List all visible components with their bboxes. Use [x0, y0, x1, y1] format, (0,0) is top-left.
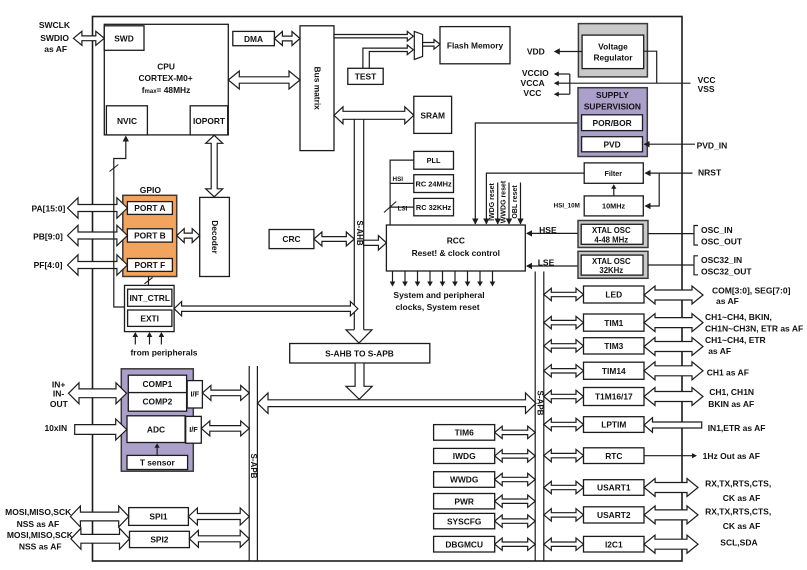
- svg-text:DBGMCU: DBGMCU: [445, 539, 483, 549]
- box PORT F: [127, 259, 172, 272]
- arrow PORT F pins: [68, 255, 128, 275]
- svg-text:EXTI: EXTI: [140, 313, 159, 323]
- wire NRST filter into RCC top: [486, 173, 584, 224]
- arrow S-APB bus to T1M16/17: [544, 390, 584, 402]
- svg-text:Bus matrix: Bus matrix: [312, 67, 322, 111]
- svg-text:10MHz: 10MHz: [602, 202, 625, 211]
- svg-text:CH1N~CH3N, ETR as AF: CH1N~CH3N, ETR as AF: [705, 323, 803, 333]
- svg-text:CH1~CH4, BKIN,: CH1~CH4, BKIN,: [705, 312, 772, 322]
- arrow WWDG to S-APB bus: [495, 473, 536, 485]
- svg-text:IN-: IN-: [53, 389, 65, 399]
- box COMP1: [128, 375, 186, 392]
- box CPU CORTEX-M0+: [104, 24, 228, 135]
- svg-text:CK as AF: CK as AF: [723, 493, 760, 503]
- box TIM3: [584, 338, 645, 354]
- MCU outer border frame: [93, 17, 683, 562]
- svg-text:IWDG: IWDG: [453, 451, 476, 461]
- wire PLL to RCC: [390, 160, 414, 225]
- bus S-AHB vertical: [353, 119, 355, 330]
- arrow CPU to Bus matrix: [228, 71, 300, 89]
- svg-text:TIM14: TIM14: [602, 366, 626, 376]
- box DBGMCU: [434, 536, 495, 552]
- svg-text:1Hz Out as AF: 1Hz Out as AF: [703, 451, 760, 461]
- wire HSI RC24MHz to vertical: [390, 182, 414, 184]
- slash mark on NVIC wire: [110, 165, 119, 172]
- box LED: [584, 286, 645, 303]
- svg-text:System and peripheral: System and peripheral: [393, 290, 484, 300]
- svg-text:Decoder: Decoder: [210, 220, 220, 254]
- svg-text:T1M16/17: T1M16/17: [595, 392, 633, 402]
- svg-text:PWR: PWR: [454, 496, 474, 506]
- wire Voltage Regulator to VCC/VSS line: [644, 51, 657, 83]
- box I2C1: [584, 536, 645, 552]
- arrow S-APB bus to TIM14: [544, 365, 584, 377]
- svg-text:COM[3:0], SEG[7:0]: COM[3:0], SEG[7:0]: [712, 285, 791, 295]
- svg-text:COMP2: COMP2: [143, 397, 173, 407]
- arrow S-APB bus to LED: [544, 288, 584, 300]
- bus S-APB right vertical: [534, 272, 536, 562]
- box RTC: [584, 448, 645, 464]
- svg-text:OUT: OUT: [50, 399, 69, 409]
- svg-text:POR/BOR: POR/BOR: [593, 118, 632, 128]
- box I/F adc interface: [186, 416, 202, 443]
- svg-text:MOSI,MISO,SCK: MOSI,MISO,SCK: [5, 507, 72, 517]
- svg-text:RCC: RCC: [447, 235, 465, 245]
- wire XTAL OSC to OSC_IN OSC_OUT bracket: [648, 233, 694, 235]
- box IOPORT: [190, 106, 228, 135]
- arrow COMP I/F to S-APB bus: [202, 385, 249, 400]
- box S-AHB TO S-APB bridge: [290, 344, 430, 364]
- svg-text:SWD: SWD: [114, 34, 134, 44]
- arrow LPTIM external input: [644, 418, 702, 433]
- svg-text:TEST: TEST: [355, 72, 377, 82]
- arrow Bus matrix to SRAM: [334, 107, 414, 124]
- svg-text:PORT A: PORT A: [134, 203, 165, 213]
- svg-text:DMA: DMA: [244, 34, 263, 44]
- box INT_CTRL: [128, 289, 172, 306]
- arrow USART1 external pins: [644, 479, 698, 497]
- wire LSI RC32KHz to vertical: [390, 206, 414, 208]
- box RC 32KHz oscillator: [414, 198, 454, 215]
- arrow SYSCFG to S-APB bus: [495, 515, 536, 527]
- wire Voltage Regulator to VDD: [555, 51, 582, 53]
- slash mark on GPIO-INT_CTRL wire: [145, 277, 153, 283]
- arrow TIM3 external pins: [644, 338, 703, 356]
- svg-text:SUPPLY: SUPPLY: [596, 90, 629, 100]
- svg-text:IOPORT: IOPORT: [193, 116, 226, 126]
- arrow PORT A pins: [68, 198, 128, 218]
- wire IWDG reset into RCC: [497, 183, 499, 225]
- box SYSCFG: [434, 513, 495, 528]
- box USART1: [584, 480, 645, 496]
- svg-text:USART1: USART1: [597, 483, 631, 493]
- svg-text:RTC: RTC: [605, 451, 622, 461]
- svg-text:SUPERVISION: SUPERVISION: [584, 102, 641, 112]
- svg-text:HSI_10M: HSI_10M: [554, 203, 580, 210]
- svg-text:TIM1: TIM1: [604, 318, 623, 328]
- box XTAL OSC 4-48MHz gray group: [578, 221, 648, 248]
- arrow PORT B pins: [68, 225, 128, 245]
- box Filter: [584, 163, 643, 183]
- arrow S-APB horizontal main: [258, 393, 537, 414]
- bus from bridge down to S-APB arrow: [346, 364, 372, 400]
- box PORT B: [127, 229, 172, 242]
- svg-text:WWDG reset: WWDG reset: [501, 180, 508, 223]
- box TEST: [348, 68, 383, 84]
- wire OBL reset into RCC: [520, 183, 522, 225]
- box analog purple group: [121, 369, 193, 471]
- svg-text:RC 32KHz: RC 32KHz: [416, 203, 452, 212]
- svg-text:VSS: VSS: [698, 84, 715, 94]
- svg-text:LSI: LSI: [398, 206, 408, 213]
- svg-text:4-48 MHz: 4-48 MHz: [594, 235, 628, 244]
- bus S-APB left vertical: [248, 366, 250, 561]
- svg-text:NRST: NRST: [698, 167, 722, 177]
- arrow mux to Flash Memory: [423, 40, 440, 50]
- svg-text:PVD: PVD: [603, 139, 620, 149]
- arrow ADC I/F to S-APB bus: [201, 421, 249, 436]
- arrow comparator pins IN+/IN-/OUT: [69, 383, 127, 404]
- arrow S-AHB bus to RCC: [364, 236, 387, 250]
- svg-text:IWDG reset: IWDG reset: [489, 182, 496, 220]
- svg-text:10xIN: 10xIN: [44, 423, 67, 433]
- arrow IWDG to S-APB bus: [495, 450, 536, 462]
- svg-text:I2C1: I2C1: [605, 539, 623, 549]
- box LPTIM: [584, 417, 645, 433]
- box XTAL OSC 32KHz inner: [581, 255, 643, 275]
- svg-text:CPU: CPU: [157, 62, 175, 72]
- wire branch to VCCIO VCCA VCC: [569, 74, 571, 94]
- svg-text:Reset! & clock control: Reset! & clock control: [412, 248, 500, 258]
- svg-text:as AF: as AF: [44, 44, 67, 54]
- box T sensor: [127, 455, 188, 469]
- svg-text:S-AHB: S-AHB: [355, 220, 364, 246]
- arrow S-APB bus to I2C1: [544, 538, 584, 550]
- svg-text:HSI: HSI: [393, 176, 404, 183]
- box PLL: [414, 151, 454, 169]
- svg-text:PORT B: PORT B: [134, 231, 166, 241]
- box RC 24MHz oscillator: [414, 175, 454, 193]
- box T1M16/17: [584, 388, 645, 406]
- box TIM14: [584, 362, 645, 379]
- wire GPIO to INT_CTRL: [148, 277, 150, 286]
- svg-text:S-APB: S-APB: [535, 391, 544, 416]
- arrow TIM1 external pins: [644, 314, 703, 332]
- svg-text:SRAM: SRAM: [420, 110, 445, 120]
- arrow 10xIN into ADC: [75, 419, 127, 440]
- box ADC: [127, 416, 185, 443]
- svg-text:I/F: I/F: [190, 389, 199, 398]
- arrow S-APB bus to RTC: [544, 449, 584, 461]
- arrow TIM6 to S-APB bus: [495, 426, 536, 438]
- box SWD: [104, 26, 144, 51]
- wire WWDG reset into RCC: [508, 183, 510, 225]
- mux trapezoid to Flash: [414, 31, 422, 59]
- svg-text:OSC_OUT: OSC_OUT: [701, 236, 743, 246]
- arrow DMA to Bus matrix: [274, 32, 300, 46]
- svg-text:ADC: ADC: [147, 424, 165, 434]
- box RCC Reset and clock control: [386, 225, 525, 271]
- wire XTAL OSC 32KHz to OSC32 bracket: [648, 264, 694, 266]
- arrow GPIO to Decoder: [177, 229, 200, 243]
- wire HSE XTAL to RCC: [527, 232, 578, 234]
- box GPIO orange group: [123, 195, 177, 276]
- svg-text:CRC: CRC: [282, 234, 300, 244]
- svg-text:CH1~CH4, ETR: CH1~CH4, ETR: [705, 335, 766, 345]
- svg-text:TIM6: TIM6: [455, 428, 474, 438]
- svg-text:MOSI,MISO,SCK: MOSI,MISO,SCK: [7, 530, 74, 540]
- svg-text:USART2: USART2: [597, 510, 631, 520]
- box 10MHz oscillator: [584, 196, 643, 216]
- svg-text:XTAL OSC: XTAL OSC: [592, 226, 631, 235]
- svg-text:VCCIO: VCCIO: [522, 68, 549, 78]
- wire PVD_IN to PVD: [645, 143, 696, 145]
- arrow SPI2 pins: [71, 528, 130, 549]
- svg-text:S-APB: S-APB: [249, 454, 258, 479]
- svg-text:RX,TX,RTS,CTS,: RX,TX,RTS,CTS,: [705, 479, 771, 489]
- svg-text:WWDG: WWDG: [450, 475, 478, 485]
- svg-text:SCL,SDA: SCL,SDA: [720, 537, 757, 547]
- svg-text:Filter: Filter: [605, 169, 623, 178]
- svg-text:PA[15:0]: PA[15:0]: [31, 203, 65, 213]
- svg-text:Flash Memory: Flash Memory: [447, 41, 504, 51]
- arrow SPI1 pins: [70, 506, 128, 527]
- svg-text:IN1,ETR as AF: IN1,ETR as AF: [708, 423, 766, 433]
- arrow S-APB bus to LPTIM: [544, 418, 584, 430]
- wire 10MHz to Filter: [613, 186, 615, 196]
- svg-text:INT_CTRL: INT_CTRL: [129, 293, 169, 303]
- svg-text:clocks, System reset: clocks, System reset: [395, 302, 479, 312]
- svg-text:COMP1: COMP1: [143, 379, 173, 389]
- box COMP2: [128, 393, 186, 412]
- svg-text:NSS as AF: NSS as AF: [17, 519, 60, 529]
- svg-text:SYSCFG: SYSCFG: [447, 516, 481, 526]
- arrow USART2 external pins: [644, 506, 698, 524]
- svg-text:PVD_IN: PVD_IN: [697, 140, 728, 150]
- arrow TIM14 external pins: [644, 362, 703, 380]
- box PORT A: [127, 202, 172, 215]
- svg-text:PB[9:0]: PB[9:0]: [33, 232, 63, 242]
- arrow S-APB bus to TIM1: [544, 316, 584, 328]
- svg-text:PORT F: PORT F: [135, 260, 166, 270]
- arrow S-APB bus to TIM3: [544, 340, 584, 352]
- svg-text:PLL: PLL: [427, 156, 441, 165]
- box Bus matrix: [300, 26, 334, 151]
- box EXTI: [128, 310, 172, 326]
- svg-text:OBL reset: OBL reset: [512, 185, 519, 219]
- svg-text:CH1 as AF: CH1 as AF: [707, 367, 749, 377]
- svg-text:LED: LED: [605, 290, 622, 300]
- svg-text:SWDIO: SWDIO: [40, 33, 69, 43]
- box INT_CTRL EXTI container: [125, 285, 175, 331]
- svg-text:I/F: I/F: [189, 425, 198, 434]
- arrow CRC to S-AHB bus: [314, 232, 354, 246]
- arrow DBGMCU to S-APB bus: [495, 538, 536, 550]
- box XTAL OSC 32KHz gray group: [578, 251, 648, 278]
- svg-text:RC 24MHz: RC 24MHz: [416, 179, 452, 188]
- svg-text:CK as AF: CK as AF: [723, 521, 760, 531]
- box TIM1: [584, 314, 645, 331]
- svg-text:RX,TX,RTS,CTS,: RX,TX,RTS,CTS,: [705, 506, 771, 516]
- svg-text:VCC: VCC: [523, 88, 541, 98]
- box DMA: [233, 31, 275, 45]
- svg-text:VDD: VDD: [527, 46, 545, 56]
- box CRC: [269, 230, 314, 249]
- svg-text:TIM3: TIM3: [604, 341, 623, 351]
- svg-text:SPI2: SPI2: [150, 535, 168, 545]
- wire LSE XTAL to RCC: [527, 265, 578, 267]
- svg-text:VCCA: VCCA: [521, 78, 545, 88]
- box SUPPLY SUPERVISION purple group: [578, 88, 647, 157]
- box Voltage Regulator gray group: [578, 24, 647, 77]
- wire POR/BOR reset into RCC top: [475, 123, 581, 224]
- svg-text:CORTEX-M0+: CORTEX-M0+: [138, 73, 192, 83]
- svg-text:CH1, CH1N: CH1, CH1N: [709, 387, 754, 397]
- svg-text:OSC32_IN: OSC32_IN: [701, 255, 742, 265]
- wire T sensor to ADC: [156, 445, 158, 455]
- wire NRST branch to 10MHz: [646, 173, 660, 206]
- svg-text:NVIC: NVIC: [117, 116, 137, 126]
- svg-text:as AF: as AF: [708, 346, 731, 356]
- box POR/BOR: [582, 115, 643, 131]
- arrow S-APB bus to USART1: [544, 481, 584, 493]
- arrow SWD to SWCLK/SWDIO pins: [73, 31, 104, 45]
- svg-text:GPIO: GPIO: [140, 185, 162, 195]
- svg-text:SWCLK: SWCLK: [39, 20, 71, 30]
- arrow Bus matrix to mux: [334, 31, 413, 41]
- box SPI1: [129, 508, 189, 526]
- arrowhead S-AHB into S-AHB TO S-APB box: [346, 330, 372, 343]
- arrow PWR to S-APB bus: [495, 495, 536, 507]
- wire NRST to Filter: [646, 172, 693, 174]
- arrow LED external pins: [644, 286, 703, 304]
- box PWR: [434, 494, 495, 509]
- box TIM6: [434, 425, 495, 441]
- box SRAM: [414, 96, 452, 133]
- svg-text:XTAL OSC: XTAL OSC: [592, 257, 631, 266]
- arrow TIM16/17 external pins: [644, 388, 703, 406]
- box Voltage Regulator inner: [582, 35, 644, 69]
- wires from peripherals into EXTI: [134, 334, 136, 345]
- box I/F comparator interface: [187, 381, 202, 408]
- arrow I2C1 external pins: [644, 535, 698, 553]
- box XTAL OSC 4-48MHz inner: [581, 224, 643, 244]
- svg-text:SPI1: SPI1: [149, 512, 167, 522]
- arrow TEST to mux (L-shaped bus): [363, 45, 413, 68]
- svg-text:PF[4:0]: PF[4:0]: [34, 260, 63, 270]
- arrow SPI1 to S-APB bus: [188, 508, 249, 525]
- wire NVIC to INT_CTRL: [114, 137, 126, 307]
- svg-text:LPTIM: LPTIM: [601, 420, 626, 430]
- svg-text:32KHz: 32KHz: [599, 266, 623, 275]
- wire VCC VSS external: [570, 82, 691, 84]
- svg-text:from peripherals: from peripherals: [130, 348, 197, 358]
- svg-text:Voltage: Voltage: [598, 41, 628, 51]
- svg-text:OSC32_OUT: OSC32_OUT: [701, 266, 752, 276]
- arrow IOPORT to Decoder: [206, 135, 223, 197]
- arrow EXTI to S-AHB bus: [174, 302, 358, 316]
- box SPI2: [130, 531, 190, 547]
- svg-text:S-AHB TO S-APB: S-AHB TO S-APB: [325, 349, 394, 359]
- arrow SPI2 to S-APB bus: [189, 530, 249, 547]
- clock output wires below RCC: [392, 271, 394, 285]
- box PVD: [582, 137, 643, 152]
- svg-text:BKIN as AF: BKIN as AF: [708, 399, 754, 409]
- box Flash Memory: [440, 27, 510, 64]
- svg-text:T sensor: T sensor: [140, 458, 176, 468]
- svg-text:NSS as AF: NSS as AF: [19, 541, 62, 551]
- slash mark on LSI wire: [384, 202, 396, 213]
- svg-text:OSC_IN: OSC_IN: [701, 225, 733, 235]
- svg-text:as AF: as AF: [716, 296, 739, 306]
- svg-text:Regulator: Regulator: [593, 53, 633, 63]
- box WWDG: [434, 472, 495, 488]
- box NVIC: [106, 106, 147, 135]
- arrow S-APB bus to USART2: [544, 509, 584, 521]
- box USART2: [584, 507, 645, 523]
- wire RTC 1Hz out: [645, 455, 697, 457]
- box Decoder: [200, 197, 230, 276]
- box IWDG: [434, 448, 495, 463]
